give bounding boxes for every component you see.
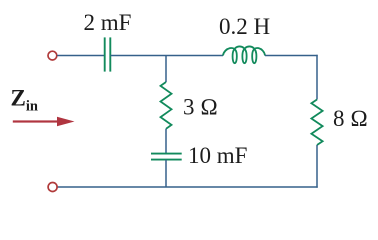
arrow Z_in direction — [13, 117, 75, 127]
svg-text:Zin: Zin — [11, 86, 38, 115]
capacitor C 10 mF plates — [151, 154, 182, 160]
svg-text:3 Ω: 3 Ω — [183, 94, 218, 119]
svg-text:2 mF: 2 mF — [84, 10, 132, 35]
wire bottom segment — [57, 186, 317, 188]
svg-text:0.2 H: 0.2 H — [219, 14, 270, 39]
resistor R 3 ohm — [161, 82, 172, 129]
svg-text:8 Ω: 8 Ω — [333, 106, 368, 131]
terminal top-left — [48, 51, 57, 60]
wire middle branch lower — [165, 160, 167, 187]
wire top-middle segment — [111, 55, 224, 57]
wire top-left segment — [57, 55, 104, 57]
wire right vertical upper — [316, 55, 318, 100]
terminal bottom-left — [48, 183, 57, 192]
wire middle branch between R and C — [165, 129, 167, 153]
inductor L 0.2 H — [223, 46, 265, 63]
wire middle branch upper — [165, 56, 167, 83]
wire right vertical lower — [316, 145, 318, 188]
resistor R 8 ohm — [311, 100, 322, 146]
capacitor C 2 mF plates — [105, 37, 111, 71]
svg-text:10 mF: 10 mF — [188, 143, 247, 168]
wire top-right segment — [265, 55, 318, 57]
